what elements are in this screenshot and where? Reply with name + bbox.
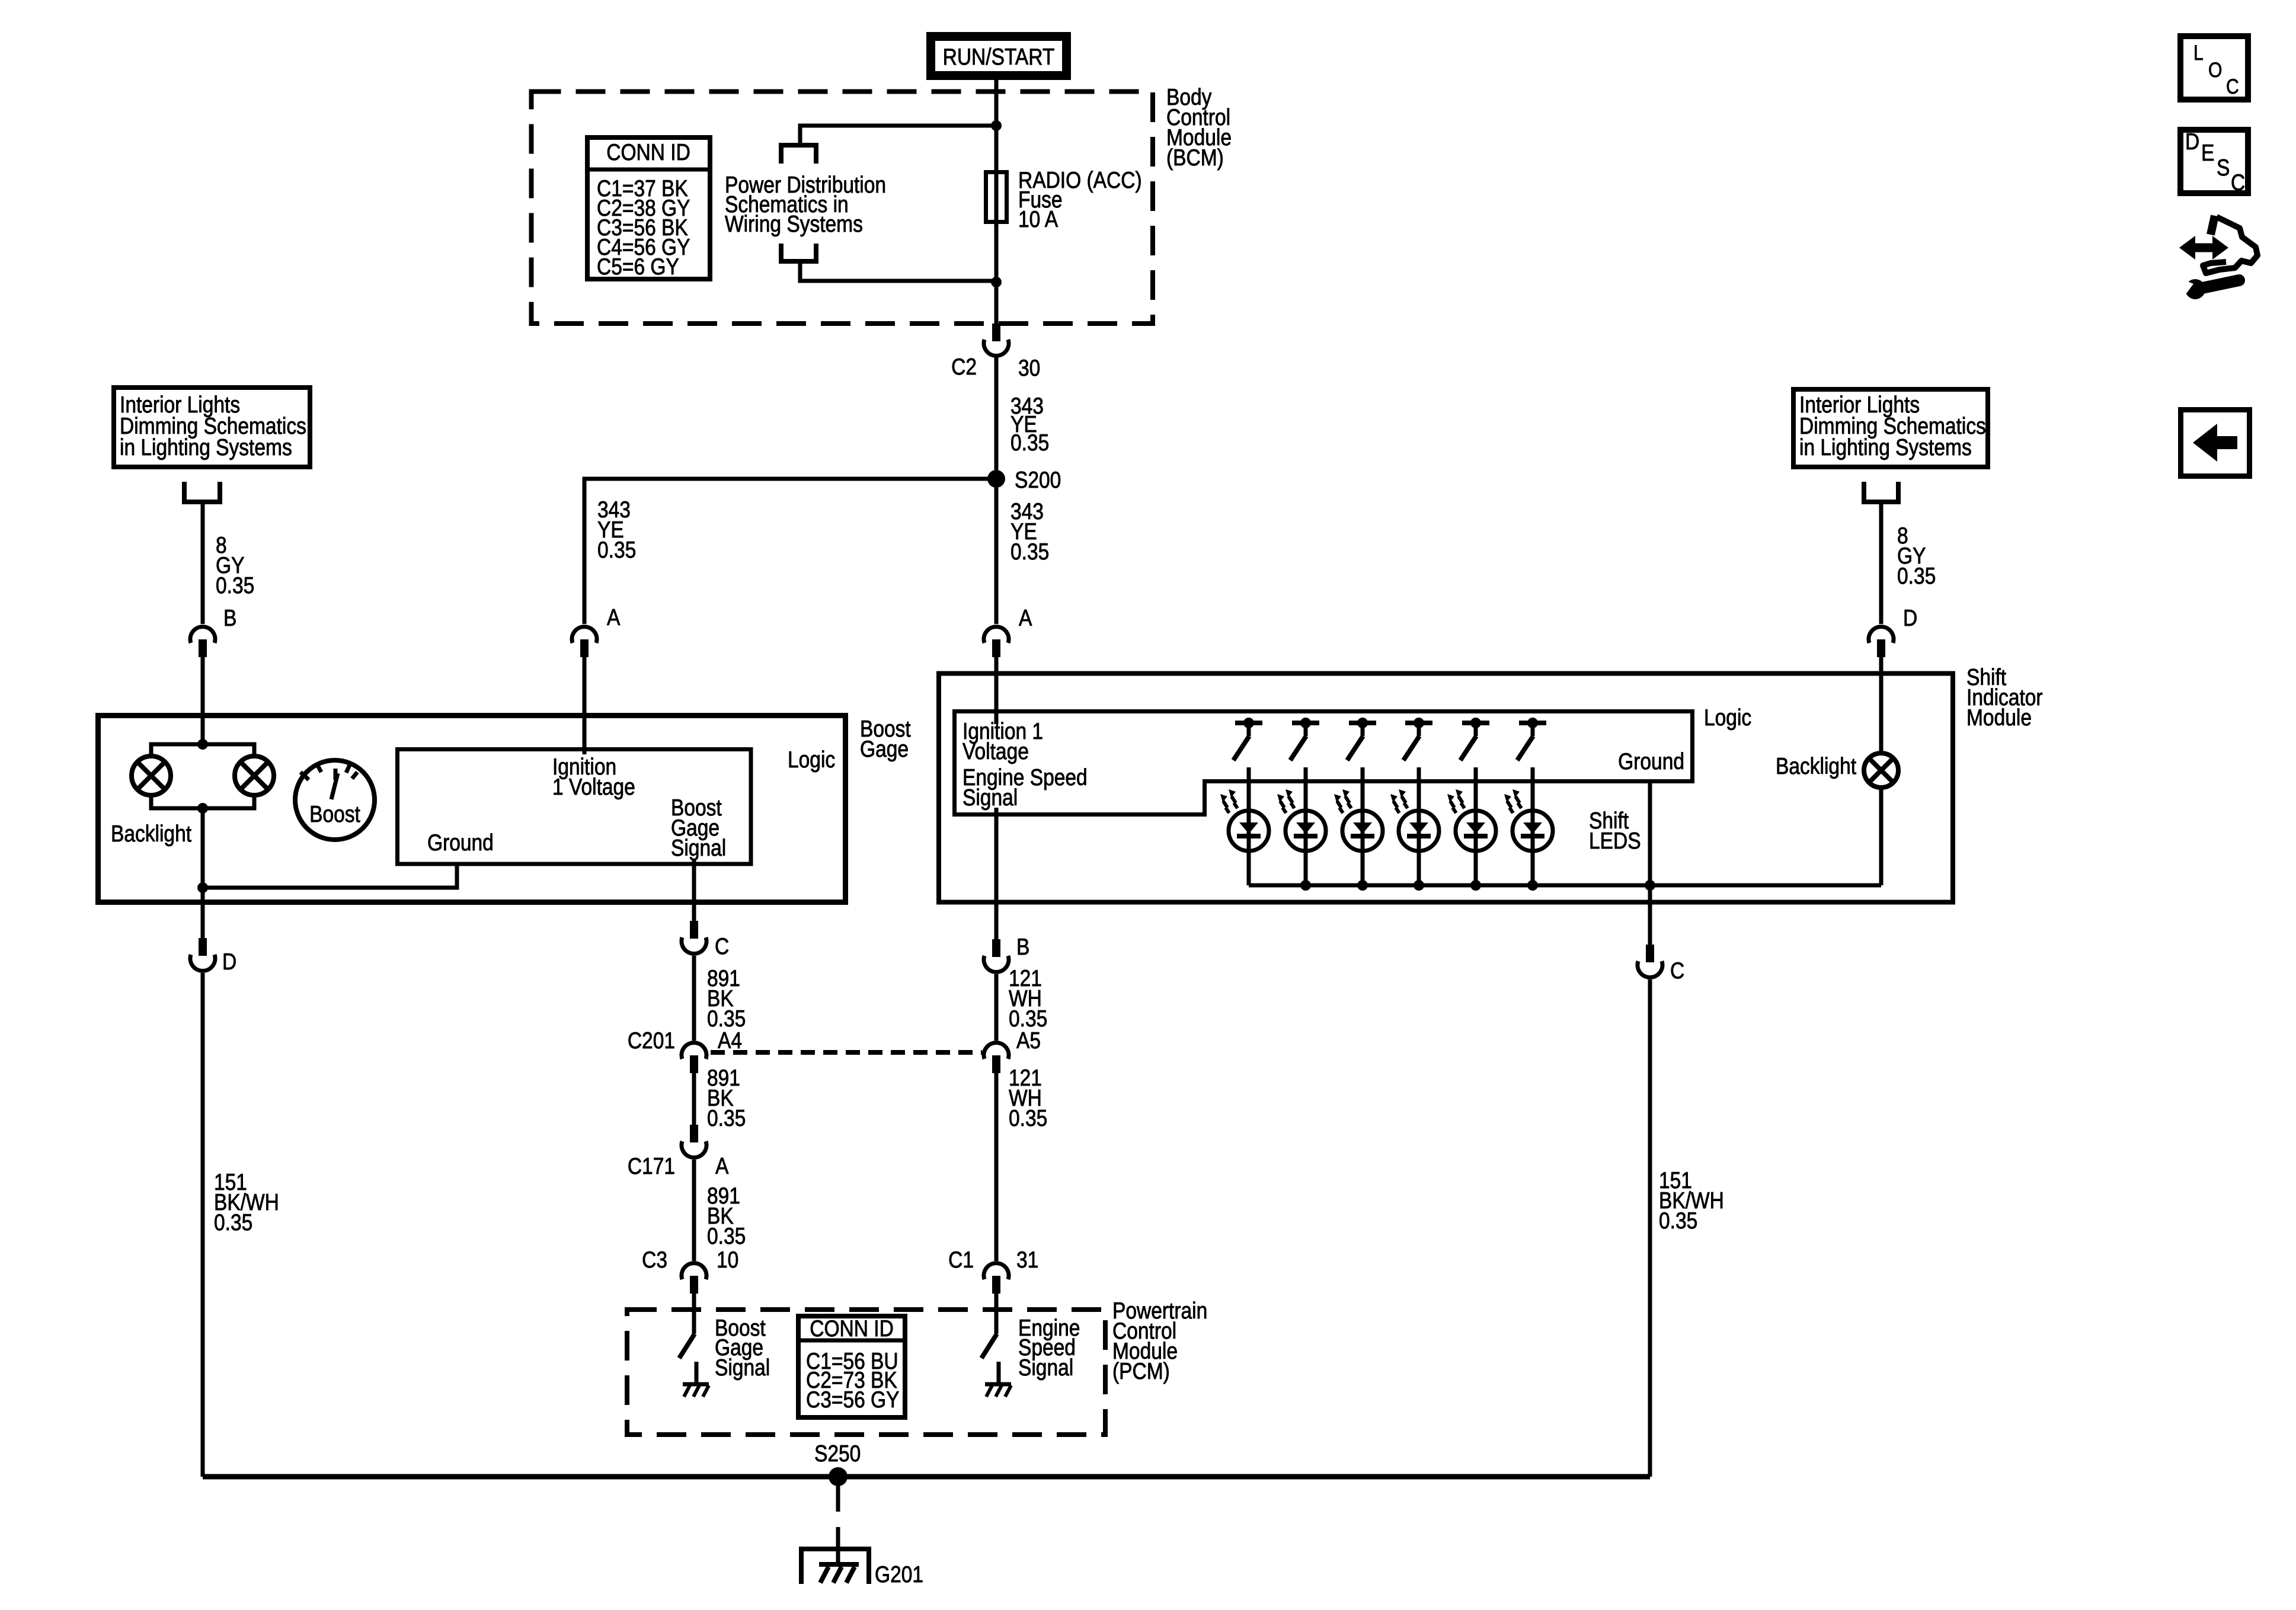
BCM dashed module box [532, 92, 1153, 324]
connector A5 [984, 1043, 1009, 1073]
svg-text:O: O [2208, 58, 2222, 82]
CONN ID table PCM [796, 1315, 907, 1417]
switch S1 shift logic [1233, 718, 1262, 760]
label Shift Indicator Module [1966, 664, 2043, 731]
PCM dashed module box [627, 1310, 1105, 1435]
splice S250 [829, 1467, 848, 1486]
label 121 WH 0.35 first [1009, 965, 1047, 1032]
switch S2 shift logic [1290, 718, 1319, 760]
label C3 [642, 1247, 667, 1273]
label A right [1019, 605, 1032, 631]
svg-text:31: 31 [1016, 1247, 1038, 1273]
label Shift LEDS [1589, 808, 1641, 854]
node LED bus junction 2 [1300, 880, 1311, 891]
connector C right pin [1638, 945, 1662, 977]
bracket below left interior lights box [184, 482, 220, 502]
svg-text:B: B [1016, 934, 1029, 960]
label Powertrain Control Module (PCM) [1112, 1298, 1207, 1384]
connector C1 pin 31 [984, 1263, 1009, 1294]
svg-text:S200: S200 [1015, 467, 1061, 493]
label D right [1903, 605, 1917, 631]
label A pin C171 [715, 1153, 729, 1179]
wire 121 WH 0.35 second [994, 1073, 999, 1261]
wire branch left from S200 [584, 479, 996, 624]
wire backlight to ground node [201, 808, 205, 888]
label Power Distribution Schematics in Wiring Systems [725, 172, 886, 237]
label 891 BK 0.35 first [707, 965, 746, 1032]
connector D right [1869, 627, 1894, 657]
svg-text:D: D [2185, 129, 2199, 155]
svg-text:A: A [715, 1153, 729, 1179]
svg-text:C3: C3 [642, 1247, 667, 1273]
label 10 [717, 1247, 738, 1273]
svg-text:0.35: 0.35 [1897, 563, 1936, 589]
label D left [222, 949, 236, 975]
label A4 [718, 1028, 742, 1054]
wire B into boost gage [201, 657, 205, 744]
svg-text:10 A: 10 A [1018, 206, 1059, 232]
connector A right [984, 627, 1009, 657]
svg-text:A5: A5 [1016, 1028, 1041, 1054]
label 891 BK 0.35 second [707, 1065, 746, 1131]
wire D to backlight [1879, 657, 1884, 754]
connector B [190, 627, 215, 657]
label Body Control Module (BCM) [1166, 84, 1232, 171]
svg-text:CONN ID: CONN ID [606, 139, 690, 165]
lamp backlight shift module [1864, 753, 1898, 788]
wire RUN/START to node [994, 80, 999, 126]
ground boost gage signal PCM [683, 1384, 709, 1397]
lamp backlight right bulb [235, 756, 274, 795]
RUN/START power feed box [931, 37, 1067, 76]
svg-text:Voltage: Voltage [962, 738, 1029, 764]
wire node2 to BCM edge [994, 282, 999, 324]
svg-text:Logic: Logic [1704, 705, 1751, 731]
svg-text:0.35: 0.35 [1009, 1105, 1047, 1131]
label Boost Gage Signal left [671, 795, 726, 861]
label RADIO (ACC) Fuse 10 A [1018, 167, 1142, 232]
wire led bus [1249, 884, 1881, 888]
svg-text:L: L [2193, 41, 2204, 65]
shift indicator module box [939, 674, 1953, 902]
label 343 YE 0.35 left branch [597, 497, 636, 563]
label G201 [875, 1561, 923, 1587]
svg-text:in Lighting Systems: in Lighting Systems [1799, 434, 1972, 460]
label 343 YE 0.35 upper [1011, 393, 1049, 456]
label Boost Gage Signal PCM [715, 1315, 770, 1381]
label Logic right [1704, 705, 1751, 731]
LED D4 shift [1390, 789, 1439, 851]
svg-text:0.35: 0.35 [1011, 539, 1049, 565]
icon back arrow [2181, 410, 2250, 476]
label Logic left [788, 747, 835, 773]
svg-text:Signal: Signal [715, 1355, 770, 1381]
inline connector power distribution lower bracket [781, 244, 816, 261]
logic box shift module [955, 712, 1693, 815]
svg-text:Signal: Signal [1018, 1355, 1073, 1381]
label Boost Gage [860, 716, 911, 762]
wire backlight down to led bus [1879, 788, 1884, 885]
svg-text:Ground: Ground [1618, 748, 1684, 774]
splice S200 [987, 470, 1005, 488]
svg-text:Ground: Ground [427, 830, 494, 856]
svg-text:CONN ID: CONN ID [810, 1315, 894, 1342]
svg-text:Backlight: Backlight [111, 821, 191, 847]
svg-text:0.35: 0.35 [597, 537, 636, 563]
LED D6 shift [1504, 789, 1553, 851]
svg-text:A: A [607, 604, 621, 630]
wire ground out of shift module [1648, 885, 1652, 945]
svg-text:Signal: Signal [962, 785, 1018, 811]
wire dashed C201 to A5 [711, 1050, 982, 1055]
LED D1 shift [1220, 789, 1269, 851]
wire A through shift module [994, 657, 999, 939]
wire 343 YE 0.35 lower [994, 479, 999, 624]
node junction top [991, 120, 1002, 131]
svg-text:Backlight: Backlight [1776, 753, 1856, 779]
label Engine Speed Signal right [962, 764, 1088, 811]
LED D2 shift [1277, 789, 1326, 851]
label A left [607, 604, 621, 630]
wire from lower bracket to node 2 [800, 261, 996, 281]
wire 8 GY 0.35 right [1879, 502, 1884, 624]
label 121 WH 0.35 second [1009, 1065, 1047, 1131]
wire switch to LED 5 [1474, 767, 1478, 885]
lamp backlight left bulb [132, 756, 171, 795]
wire switch to LED 4 [1417, 767, 1421, 885]
node ground junction left [197, 882, 208, 893]
label 31 [1016, 1247, 1038, 1273]
interior lights box right [1793, 389, 1988, 467]
svg-text:0.35: 0.35 [1011, 430, 1049, 456]
svg-text:C: C [1670, 958, 1684, 984]
wire 8 GY 0.35 left [201, 502, 205, 624]
svg-text:D: D [222, 949, 236, 975]
label C201 [628, 1028, 675, 1054]
svg-text:(PCM): (PCM) [1112, 1358, 1170, 1384]
label B [223, 605, 236, 631]
svg-text:0.35: 0.35 [707, 1223, 746, 1249]
switch engine speed signal PCM [981, 1334, 999, 1383]
connector C2 pin 30 [984, 324, 1009, 356]
wire 891 BK 0.35 second [692, 1073, 696, 1125]
wire backlight to D left [201, 888, 205, 938]
node LED bus junction 5 [1470, 880, 1481, 891]
icon LOC [2180, 36, 2248, 100]
node backlight bottom junction [197, 803, 208, 814]
gauge Boost [295, 760, 375, 840]
wire S250 to ground [836, 1477, 840, 1564]
boost gage module box [98, 716, 846, 902]
svg-text:Logic: Logic [788, 747, 835, 773]
svg-text:A4: A4 [718, 1028, 742, 1054]
label Ground right [1618, 748, 1684, 774]
label C left [715, 933, 729, 959]
LED D3 shift [1334, 789, 1383, 851]
label 8 GY 0.35 left [216, 532, 254, 598]
wire 151 BK/WH right [1648, 980, 1652, 1477]
wire C1 into PCM [994, 1294, 999, 1334]
wire 151 BK/WH left [201, 973, 205, 1477]
svg-text:0.35: 0.35 [214, 1209, 252, 1235]
ground engine speed signal PCM [985, 1384, 1011, 1397]
label Ground left [427, 830, 494, 856]
label A5 [1016, 1028, 1041, 1054]
svg-text:C201: C201 [628, 1028, 675, 1054]
connector C201 pin A4 [682, 1043, 706, 1073]
svg-text:S: S [2217, 155, 2230, 181]
wire boost gage signal out [692, 859, 696, 921]
connector C3 pin 10 [682, 1263, 706, 1294]
interior lights box left [114, 388, 310, 467]
icon adjust hand with wrench [2177, 216, 2257, 299]
connector A left branch [572, 627, 597, 657]
wire 891 BK 0.35 first [692, 956, 696, 1041]
svg-text:in Lighting Systems: in Lighting Systems [120, 434, 292, 460]
wire lamp bracket top [151, 744, 254, 756]
wire switch to LED 6 [1531, 767, 1535, 885]
bracket below right interior lights box [1864, 482, 1898, 502]
svg-text:0.35: 0.35 [216, 572, 254, 598]
label Ignition 1 Voltage right [962, 718, 1043, 764]
svg-text:C5=6 GY: C5=6 GY [597, 254, 679, 280]
svg-text:RUN/START: RUN/START [943, 44, 1055, 70]
connector B right pin [984, 939, 1009, 972]
wire ground pin shift logic [1648, 783, 1652, 885]
ground G201 [801, 1549, 869, 1584]
svg-text:Gage: Gage [860, 736, 909, 762]
label C right [1670, 958, 1684, 984]
wire ground bus [203, 1474, 1650, 1480]
LED D5 shift [1447, 789, 1496, 851]
wire 891 BK 0.35 third [692, 1160, 696, 1261]
svg-text:C: C [2226, 75, 2239, 98]
fuse RADIO (ACC) 10 A [986, 172, 1007, 222]
switch boost gage signal PCM [679, 1334, 696, 1383]
label Engine Speed Signal PCM [1018, 1315, 1080, 1381]
switch S6 shift logic [1517, 718, 1546, 760]
node LED bus junction 4 [1414, 880, 1424, 891]
svg-text:Boost: Boost [309, 801, 360, 827]
svg-text:Signal: Signal [671, 835, 726, 861]
svg-text:C171: C171 [628, 1153, 675, 1179]
label Ignition 1 Voltage left [552, 754, 635, 800]
node ground junction shift [1645, 880, 1655, 891]
connector C left [682, 921, 706, 953]
wire branch to power distribution connector [800, 126, 996, 145]
switch S5 shift logic [1460, 718, 1489, 760]
label Backlight right [1776, 753, 1856, 779]
label 151 BK/WH 0.35 left [214, 1169, 279, 1235]
svg-text:E: E [2201, 140, 2214, 166]
wire C3 into PCM [692, 1294, 696, 1334]
connector C171 pin A [682, 1125, 706, 1157]
logic box boost gage [398, 750, 752, 865]
wire A into boost gage [583, 657, 587, 754]
inline connector power distribution upper bracket [781, 145, 816, 164]
wire ground return left [203, 864, 457, 888]
svg-text:1 Voltage: 1 Voltage [552, 774, 635, 800]
svg-text:LEDS: LEDS [1589, 828, 1641, 854]
icon DESC [2180, 129, 2248, 196]
wire 121 WH 0.35 first [994, 974, 999, 1041]
connector D left [190, 938, 215, 971]
node LED bus junction 6 [1527, 880, 1538, 891]
wire lamp bracket bottom [151, 795, 254, 808]
switch S4 shift logic [1403, 718, 1432, 760]
label C1 [948, 1247, 974, 1273]
svg-text:Module: Module [1966, 705, 2032, 731]
CONN ID table BCM [585, 137, 712, 280]
node backlight top junction [197, 739, 208, 750]
label S250 [814, 1441, 861, 1467]
svg-text:C1: C1 [948, 1247, 974, 1273]
svg-text:0.35: 0.35 [707, 1105, 746, 1131]
label B right [1016, 934, 1029, 960]
wire switch to LED 1 [1247, 767, 1251, 885]
svg-text:A: A [1019, 605, 1032, 631]
svg-text:B: B [223, 605, 236, 631]
svg-text:10: 10 [717, 1247, 738, 1273]
label C2 [951, 354, 977, 380]
wire through fuse [994, 126, 999, 282]
label C171 [628, 1153, 675, 1179]
label 151 BK/WH 0.35 right [1659, 1167, 1724, 1234]
svg-text:(BCM): (BCM) [1166, 145, 1224, 171]
svg-text:C2: C2 [951, 354, 977, 380]
wire switch to LED 3 [1361, 767, 1365, 885]
svg-text:G201: G201 [875, 1561, 923, 1587]
label 343 YE 0.35 lower [1011, 498, 1049, 565]
svg-text:C: C [715, 933, 729, 959]
switch S3 shift logic [1347, 718, 1376, 760]
label S200 [1015, 467, 1061, 493]
wire switch to LED 2 [1304, 767, 1308, 885]
svg-text:Wiring Systems: Wiring Systems [725, 211, 863, 237]
node LED bus junction 3 [1357, 880, 1368, 891]
label 891 BK 0.35 third [707, 1183, 746, 1249]
label 8 GY 0.35 right [1897, 523, 1936, 589]
svg-text:30: 30 [1018, 355, 1040, 381]
svg-text:S250: S250 [814, 1441, 861, 1467]
svg-text:D: D [1903, 605, 1917, 631]
svg-text:0.35: 0.35 [1659, 1208, 1697, 1234]
wire 343 YE 0.35 upper [994, 356, 999, 470]
svg-text:C: C [2231, 169, 2245, 196]
label Backlight left [111, 821, 191, 847]
label 30 [1018, 355, 1040, 381]
svg-text:C3=56 GY: C3=56 GY [806, 1387, 899, 1413]
node junction above C2 [991, 277, 1002, 287]
